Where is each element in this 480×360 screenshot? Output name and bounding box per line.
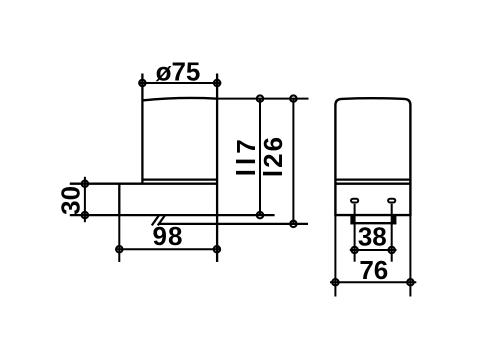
126 dimension line <box>292 99 294 224</box>
plate left edge <box>118 184 120 215</box>
76 dimension line <box>330 281 416 283</box>
38 left extension line <box>354 204 356 262</box>
break mark diagonal 1 <box>152 215 159 225</box>
98 ring terminator left <box>116 246 122 252</box>
plate bottom edge with 30 and 117 extensions <box>70 214 275 216</box>
30 dimension line <box>84 177 86 222</box>
svg-text:98: 98 <box>153 221 184 251</box>
98 left extension line <box>118 215 120 262</box>
30 ring terminator top <box>82 181 88 187</box>
76 ring terminator left <box>332 279 338 285</box>
side view rim line upper <box>335 178 410 180</box>
30 ring terminator bottom <box>82 212 88 218</box>
svg-text:ø75: ø75 <box>156 57 201 87</box>
cup left side with dia75 left extension line <box>141 74 143 184</box>
98 dimension line <box>115 248 221 250</box>
dia75 dimension line <box>139 82 222 84</box>
38 ring terminator left <box>351 247 357 253</box>
76 ring terminator right <box>407 279 413 285</box>
117 dimension line <box>259 99 261 216</box>
screw slot left <box>351 199 358 203</box>
screw slot right <box>388 199 395 203</box>
126 ring terminator top <box>290 95 296 101</box>
cup top arc (front view) <box>142 98 217 100</box>
cup bottom rim line <box>142 178 217 180</box>
cup right side with dia75 ext, plate right edge, 98 right extension <box>216 74 218 263</box>
dia75 ring terminator right <box>214 80 220 86</box>
117 ring terminator bottom <box>257 212 263 218</box>
98 ring terminator right <box>214 246 220 252</box>
svg-text:76: 76 <box>359 255 388 285</box>
holder arm bottom line with 126 extension <box>160 223 309 225</box>
svg-text:30: 30 <box>55 186 85 215</box>
38 ring terminator right <box>389 247 395 253</box>
126 ring terminator bottom <box>290 221 296 227</box>
svg-text:l26: l26 <box>258 135 288 177</box>
svg-text:38: 38 <box>358 221 387 251</box>
side view rim line lower <box>335 183 410 185</box>
117 ring terminator top <box>257 95 263 101</box>
38 dimension line <box>350 249 397 251</box>
break mark diagonal 2 <box>158 215 165 225</box>
38 right extension line <box>391 204 393 262</box>
holder bracket left bar <box>350 215 354 224</box>
plate top edge with 30 top extension <box>70 183 217 185</box>
side view body outline <box>335 98 410 215</box>
svg-text:ll7: ll7 <box>231 135 261 176</box>
76 right extension line <box>409 215 411 296</box>
holder bracket bottom line <box>350 222 396 224</box>
holder bracket right bar <box>392 215 396 224</box>
top extension line for 117 and 126 <box>217 98 308 100</box>
dia75 ring terminator left <box>139 80 145 86</box>
76 left extension line <box>334 215 336 296</box>
